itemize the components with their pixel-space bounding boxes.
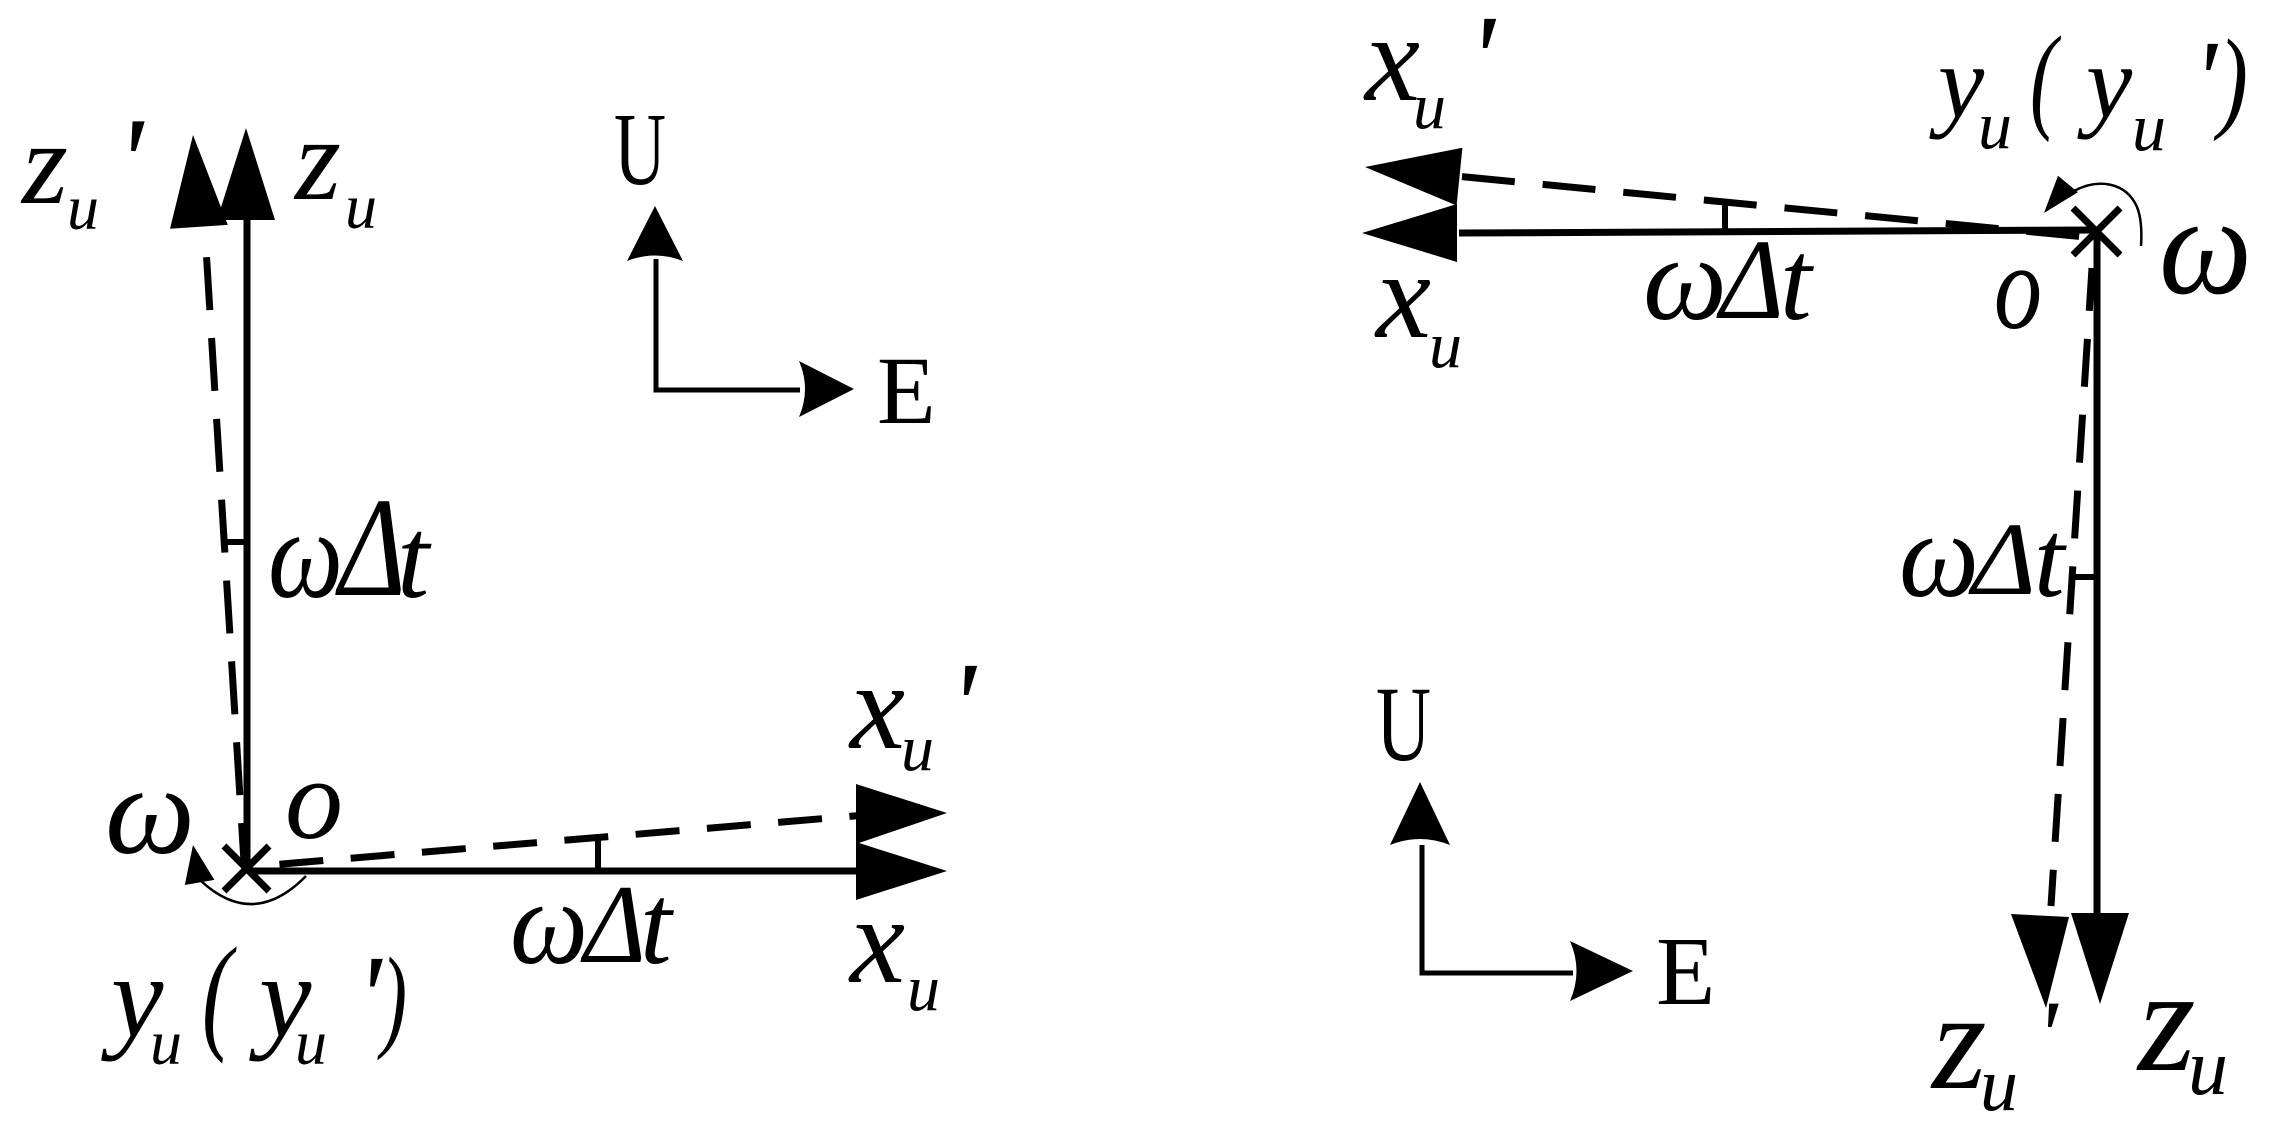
svg-text:): ) <box>377 934 407 1061</box>
angle tick on x axes (left) <box>595 840 601 871</box>
angle tick on z axes (left) <box>222 539 247 545</box>
axis z_u' dashed line (left) <box>205 232 244 862</box>
svg-text:x: x <box>848 872 905 1009</box>
rotation arrow arc (right) <box>2074 184 2141 246</box>
svg-text:': ' <box>116 93 145 232</box>
svg-text:z: z <box>2136 939 2196 1103</box>
axis z_u' arrowhead (left) <box>170 135 228 229</box>
svg-text:Δ: Δ <box>1968 502 2036 617</box>
svg-text:': ' <box>949 637 978 774</box>
svg-text:ω: ω <box>1899 488 1979 623</box>
rotation arrow head (left) <box>185 845 215 885</box>
svg-text:z: z <box>20 98 68 229</box>
reference axes U-E lines (left) <box>656 259 800 390</box>
axis x_u' arrowhead (right) <box>1365 148 1462 206</box>
svg-text:': ' <box>1468 0 1497 127</box>
svg-text:u: u <box>2188 1024 2228 1112</box>
svg-text:u: u <box>67 172 99 243</box>
angle tick on x axes (right) <box>1722 200 1728 231</box>
reference axis U arrowhead (right) <box>1390 782 1450 845</box>
svg-text:Δ: Δ <box>335 468 406 626</box>
svg-text:u: u <box>901 712 934 785</box>
svg-text:': ' <box>2036 980 2059 1091</box>
svg-text:t: t <box>640 861 674 988</box>
axis x_u solid line (right) <box>1459 230 2096 233</box>
reference axis E arrowhead (right) <box>1570 941 1633 1001</box>
svg-text:u: u <box>907 952 940 1025</box>
svg-text:t: t <box>1780 217 1814 344</box>
axis x_u arrowhead (right) <box>1362 204 1457 262</box>
svg-text:o: o <box>285 736 343 864</box>
svg-text:u: u <box>1429 309 1462 382</box>
rotation arrow arc (left) <box>200 876 306 904</box>
axis z_u' dashed line (right) <box>2051 268 2092 906</box>
svg-text:ω: ω <box>2159 166 2252 324</box>
svg-text:y: y <box>1929 25 1985 140</box>
svg-text:u: u <box>345 171 377 242</box>
svg-text:y: y <box>2077 25 2133 140</box>
rotation arrow head (right) <box>2044 176 2078 213</box>
svg-text:E: E <box>1656 918 1715 1025</box>
svg-text:U: U <box>1376 666 1431 784</box>
svg-text:': ' <box>2193 19 2219 142</box>
axis x_u' dashed line (left) <box>252 815 866 867</box>
svg-text:U: U <box>614 92 666 207</box>
svg-text:(: ( <box>202 921 237 1064</box>
svg-text:ω: ω <box>510 856 588 989</box>
axis x_u' arrowhead (left) <box>856 784 947 844</box>
angle tick on z axes (right) <box>2070 574 2097 580</box>
svg-text:u: u <box>150 1007 182 1078</box>
axis x_u' dashed line (right) <box>1462 177 2096 238</box>
svg-text:z: z <box>1930 964 1986 1119</box>
svg-text:': ' <box>356 931 383 1062</box>
svg-text:ω: ω <box>268 485 343 625</box>
svg-text:u: u <box>1980 1043 2018 1127</box>
reference axis E arrowhead (left) <box>799 361 854 417</box>
svg-text:): ) <box>2213 17 2248 142</box>
svg-text:ω: ω <box>105 741 195 881</box>
axis z_u solid line (right) <box>2094 233 2101 915</box>
svg-text:t: t <box>2034 498 2067 620</box>
svg-text:(: ( <box>2030 12 2062 143</box>
origin cross marker o (left) <box>224 846 269 891</box>
svg-text:u: u <box>295 1007 327 1078</box>
axis z_u arrowhead (right) <box>2071 913 2129 1004</box>
svg-text:z: z <box>293 94 341 225</box>
origin cross marker o (right) <box>2073 208 2120 255</box>
svg-text:t: t <box>397 495 432 623</box>
svg-text:x: x <box>1374 227 1431 364</box>
axis x_u arrowhead (left) <box>856 842 947 900</box>
axis z_u' arrowhead (right) <box>2011 914 2069 1008</box>
svg-text:Δ: Δ <box>1716 216 1784 343</box>
svg-text:Δ: Δ <box>580 863 646 987</box>
reference axis U arrowhead (left) <box>627 206 683 261</box>
axis x_u solid line (left) <box>249 868 858 875</box>
axis z_u arrowhead (left) <box>217 128 275 220</box>
svg-text:u: u <box>1978 87 2012 163</box>
reference axes U-E lines (right) <box>1422 845 1573 973</box>
axis z_u solid line (left) <box>244 216 251 871</box>
svg-text:x: x <box>848 638 905 775</box>
svg-text:ω: ω <box>1643 212 1727 345</box>
svg-text:E: E <box>877 337 936 444</box>
svg-text:u: u <box>1413 70 1446 143</box>
svg-text:o: o <box>1994 220 2042 355</box>
svg-text:u: u <box>2132 89 2166 165</box>
svg-text:x: x <box>1363 0 1420 127</box>
